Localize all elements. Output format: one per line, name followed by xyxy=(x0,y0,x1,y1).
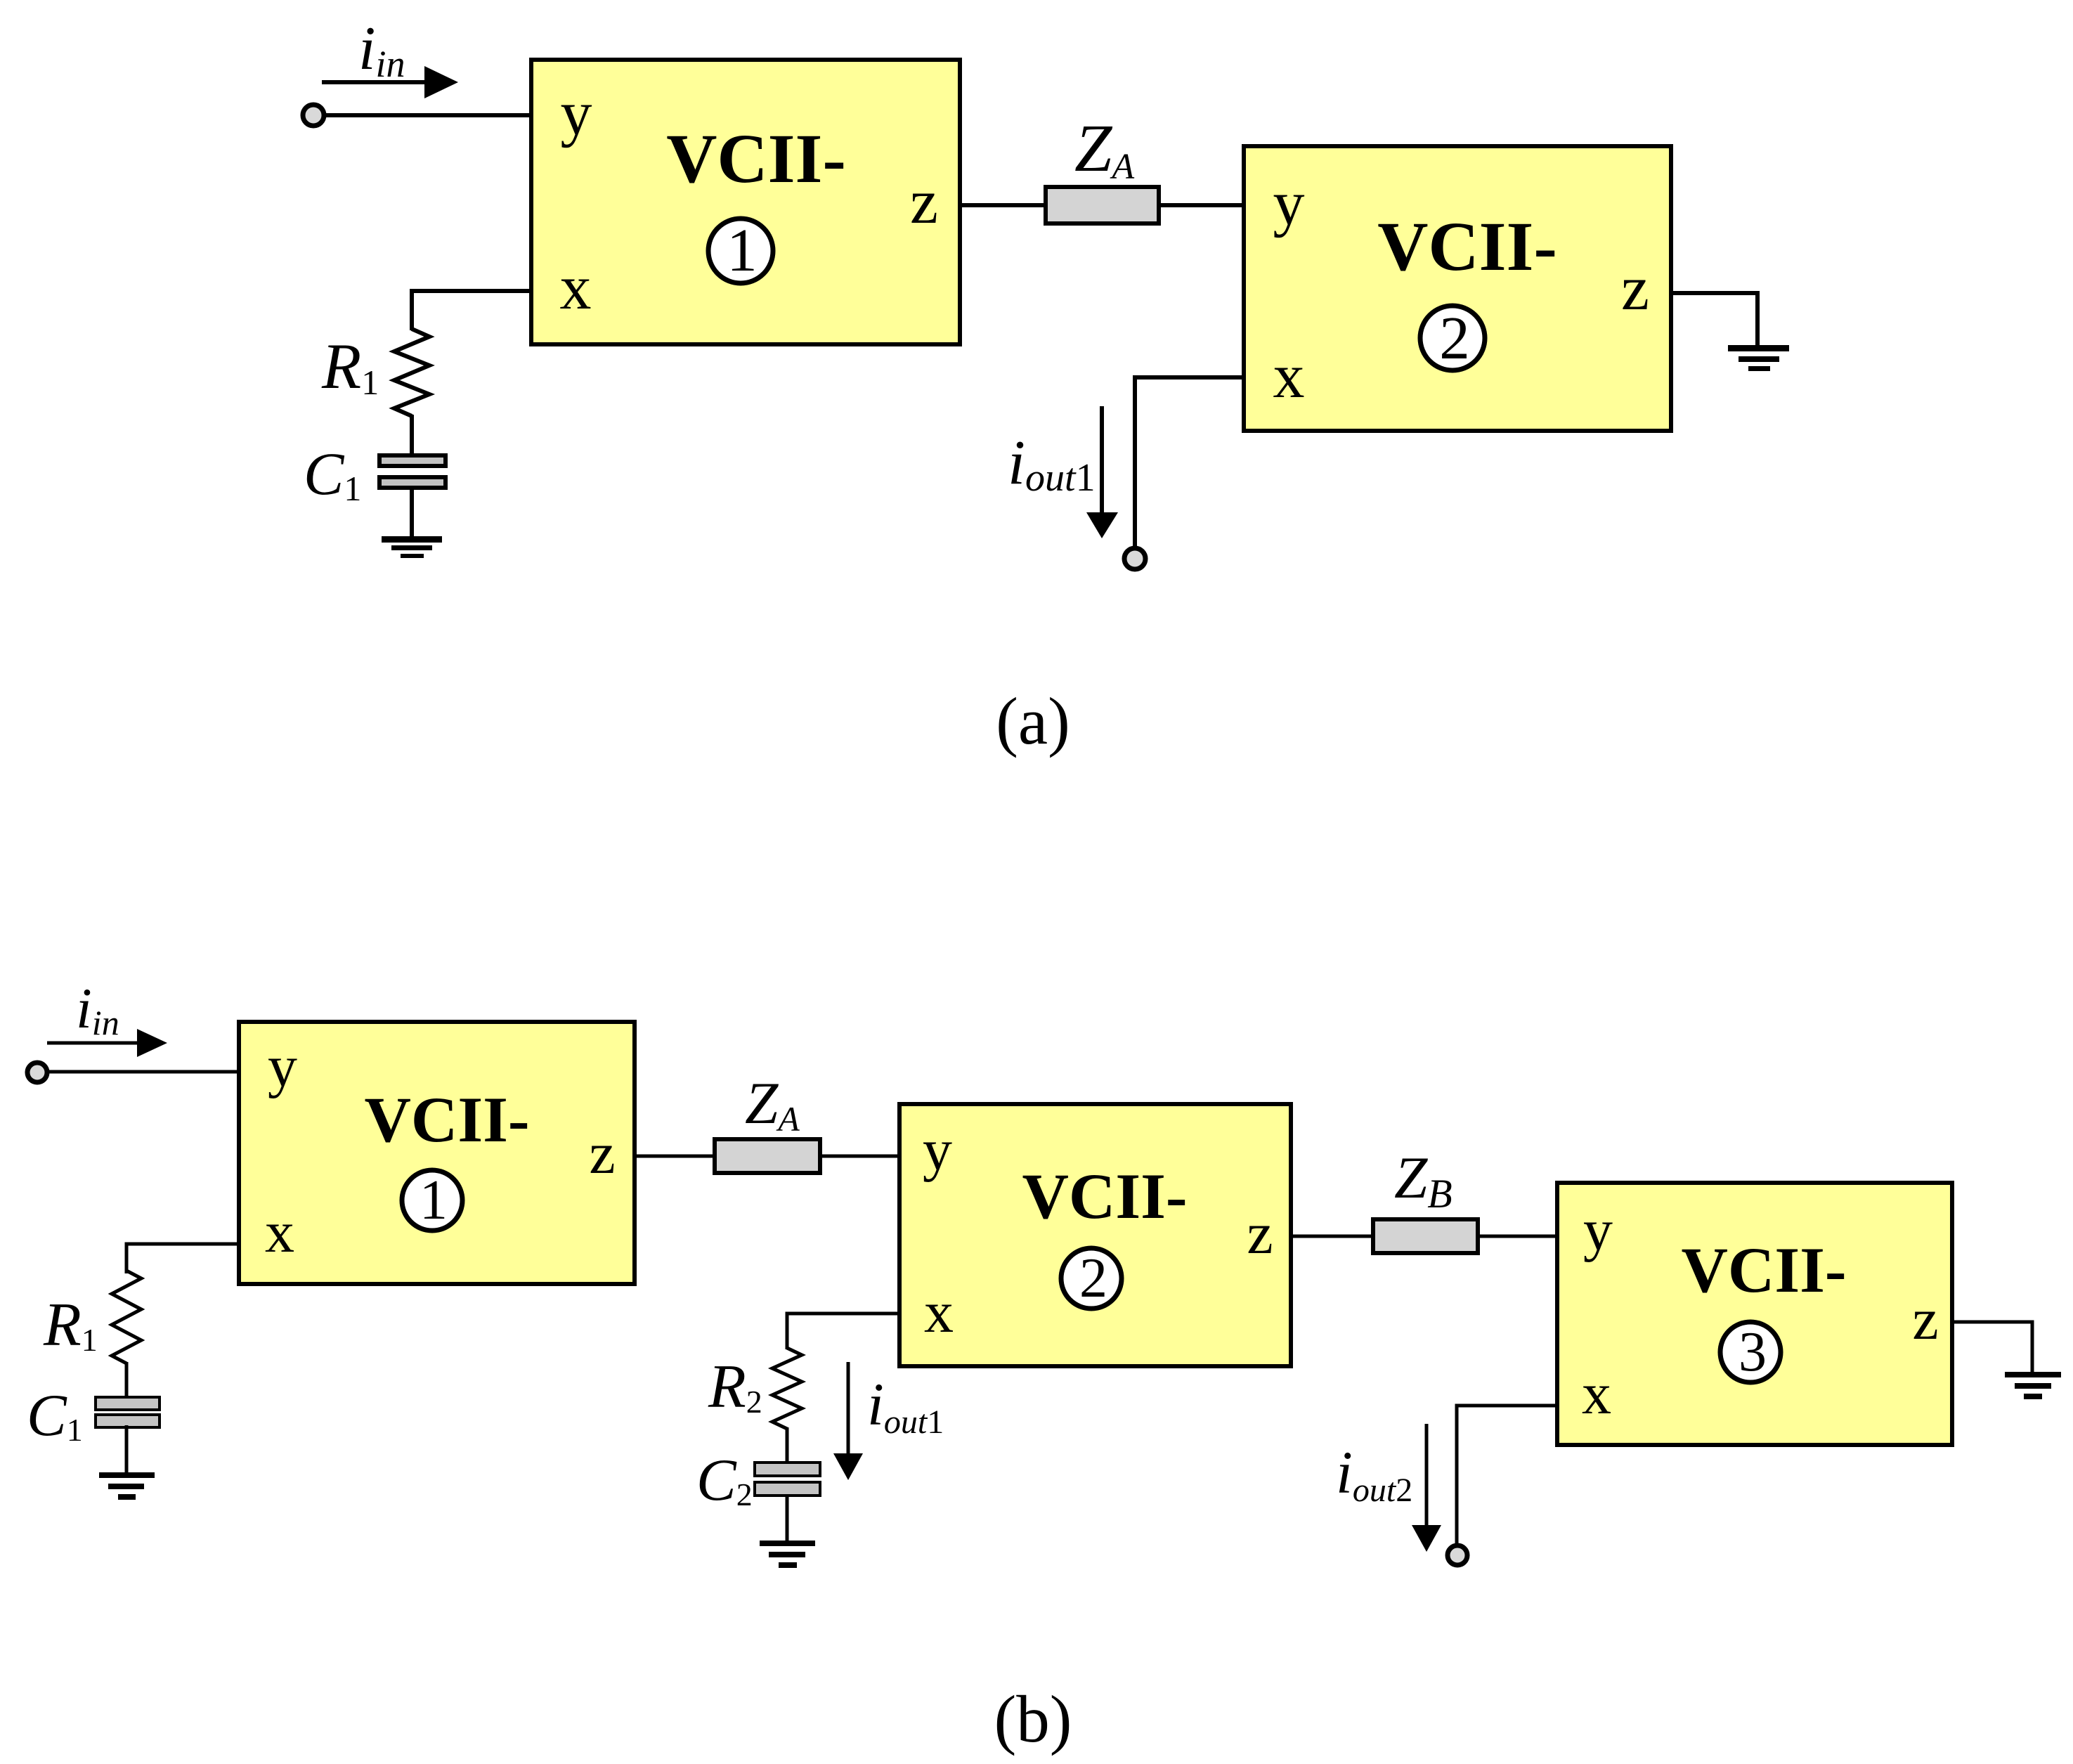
svg-text:z: z xyxy=(589,1121,615,1186)
wire input to y pin of U1b xyxy=(46,1070,241,1074)
wire input to y pin of U1a xyxy=(324,113,533,117)
svg-text:VCII-: VCII- xyxy=(1681,1234,1846,1306)
ground (b, below C1) xyxy=(99,1472,155,1500)
svg-text:(b): (b) xyxy=(994,1682,1072,1756)
VCII- block U1a xyxy=(531,60,960,344)
arrow i_out1 (a) xyxy=(1086,406,1118,538)
svg-text:VCII-: VCII- xyxy=(1022,1160,1187,1232)
svg-text:y: y xyxy=(1273,169,1305,238)
circled number 1 (U1b) xyxy=(402,1169,462,1231)
VCII- block U2b xyxy=(899,1104,1291,1366)
arrow i_in (a) xyxy=(322,66,458,98)
svg-text:x: x xyxy=(1582,1361,1611,1427)
svg-text:z: z xyxy=(1621,254,1649,323)
wire C1a to ground xyxy=(410,490,414,538)
svg-text:(a): (a) xyxy=(996,684,1070,758)
arrow i_out1 (b) xyxy=(833,1362,863,1480)
capacitor C1 (a) xyxy=(379,455,446,488)
ground (a, below C1) xyxy=(382,536,442,558)
svg-text:x: x xyxy=(265,1200,294,1265)
impedance ZA (b) xyxy=(715,1139,820,1173)
wire z pin U3b to ground xyxy=(1950,1322,2032,1372)
ground (b, below C2) xyxy=(760,1541,815,1568)
wire x pin U2b to R2 xyxy=(787,1314,902,1349)
VCII- block U1b xyxy=(239,1022,635,1284)
wire x pin U1a to R1a xyxy=(412,291,533,330)
circled number 3 (U3b) xyxy=(1720,1321,1781,1383)
circled number 2 (U2a) xyxy=(1420,304,1485,372)
svg-text:1: 1 xyxy=(727,216,758,284)
capacitor C1 (b) xyxy=(96,1397,160,1427)
svg-text:x: x xyxy=(560,253,592,323)
ground (b, right) xyxy=(2005,1372,2061,1399)
svg-text:VCII-: VCII- xyxy=(364,1084,529,1155)
impedance ZB xyxy=(1373,1219,1478,1253)
svg-text:z: z xyxy=(1247,1201,1273,1266)
resistor R1 (b) xyxy=(112,1271,141,1363)
svg-text:1: 1 xyxy=(420,1169,448,1231)
wire C1b to ground xyxy=(125,1425,129,1472)
wire R1a to C1a xyxy=(410,415,414,455)
wire z pin U2b to ZB xyxy=(1289,1235,1375,1238)
svg-text:y: y xyxy=(561,79,592,148)
wire ZB to y pin U3b xyxy=(1476,1235,1559,1238)
wire x pin U1b to R1b xyxy=(126,1244,241,1273)
input terminal (a) xyxy=(303,105,324,126)
wire R1b to C1b xyxy=(125,1362,129,1399)
wire z pin U2a to ground xyxy=(1669,293,1757,346)
svg-text:VCII-: VCII- xyxy=(1377,207,1557,285)
resistor R2 xyxy=(772,1348,802,1429)
circled number 1 (U1a) xyxy=(708,216,773,284)
svg-text:VCII-: VCII- xyxy=(666,119,846,197)
wire ZA to y pin U2a xyxy=(1157,203,1246,207)
output terminal (a) xyxy=(1124,548,1145,569)
ground (a, right) xyxy=(1728,345,1789,371)
capacitor C2 xyxy=(755,1463,820,1496)
wire C2 to ground xyxy=(786,1494,789,1541)
wire x pin U2a to output xyxy=(1135,377,1246,548)
arrow i_out2 (b) xyxy=(1412,1424,1441,1552)
svg-text:z: z xyxy=(1912,1287,1938,1352)
impedance ZA (a) xyxy=(1046,187,1159,223)
wire R2 to C2 xyxy=(786,1427,789,1464)
wire z pin U1b to ZA xyxy=(632,1155,716,1158)
wire z pin U1a to ZA xyxy=(958,203,1047,207)
wire x pin U3b to output xyxy=(1457,1406,1559,1545)
svg-text:x: x xyxy=(1273,342,1305,411)
circled number 2 (U2b) xyxy=(1061,1247,1122,1309)
input terminal (b) xyxy=(27,1063,47,1082)
svg-text:2: 2 xyxy=(1079,1247,1107,1309)
svg-text:3: 3 xyxy=(1739,1321,1767,1383)
VCII- block U2a xyxy=(1244,146,1671,431)
arrow i_in (b) xyxy=(47,1029,167,1057)
VCII- block U3b xyxy=(1557,1183,1952,1445)
output terminal (b) xyxy=(1448,1545,1467,1565)
svg-text:y: y xyxy=(923,1117,952,1183)
svg-text:2: 2 xyxy=(1439,304,1470,372)
wire ZA to y pin U2b xyxy=(819,1155,902,1158)
svg-text:y: y xyxy=(1583,1198,1613,1263)
resistor R1 (a) xyxy=(394,329,429,416)
svg-text:y: y xyxy=(268,1034,297,1099)
svg-text:z: z xyxy=(910,167,938,237)
svg-text:x: x xyxy=(924,1280,954,1345)
